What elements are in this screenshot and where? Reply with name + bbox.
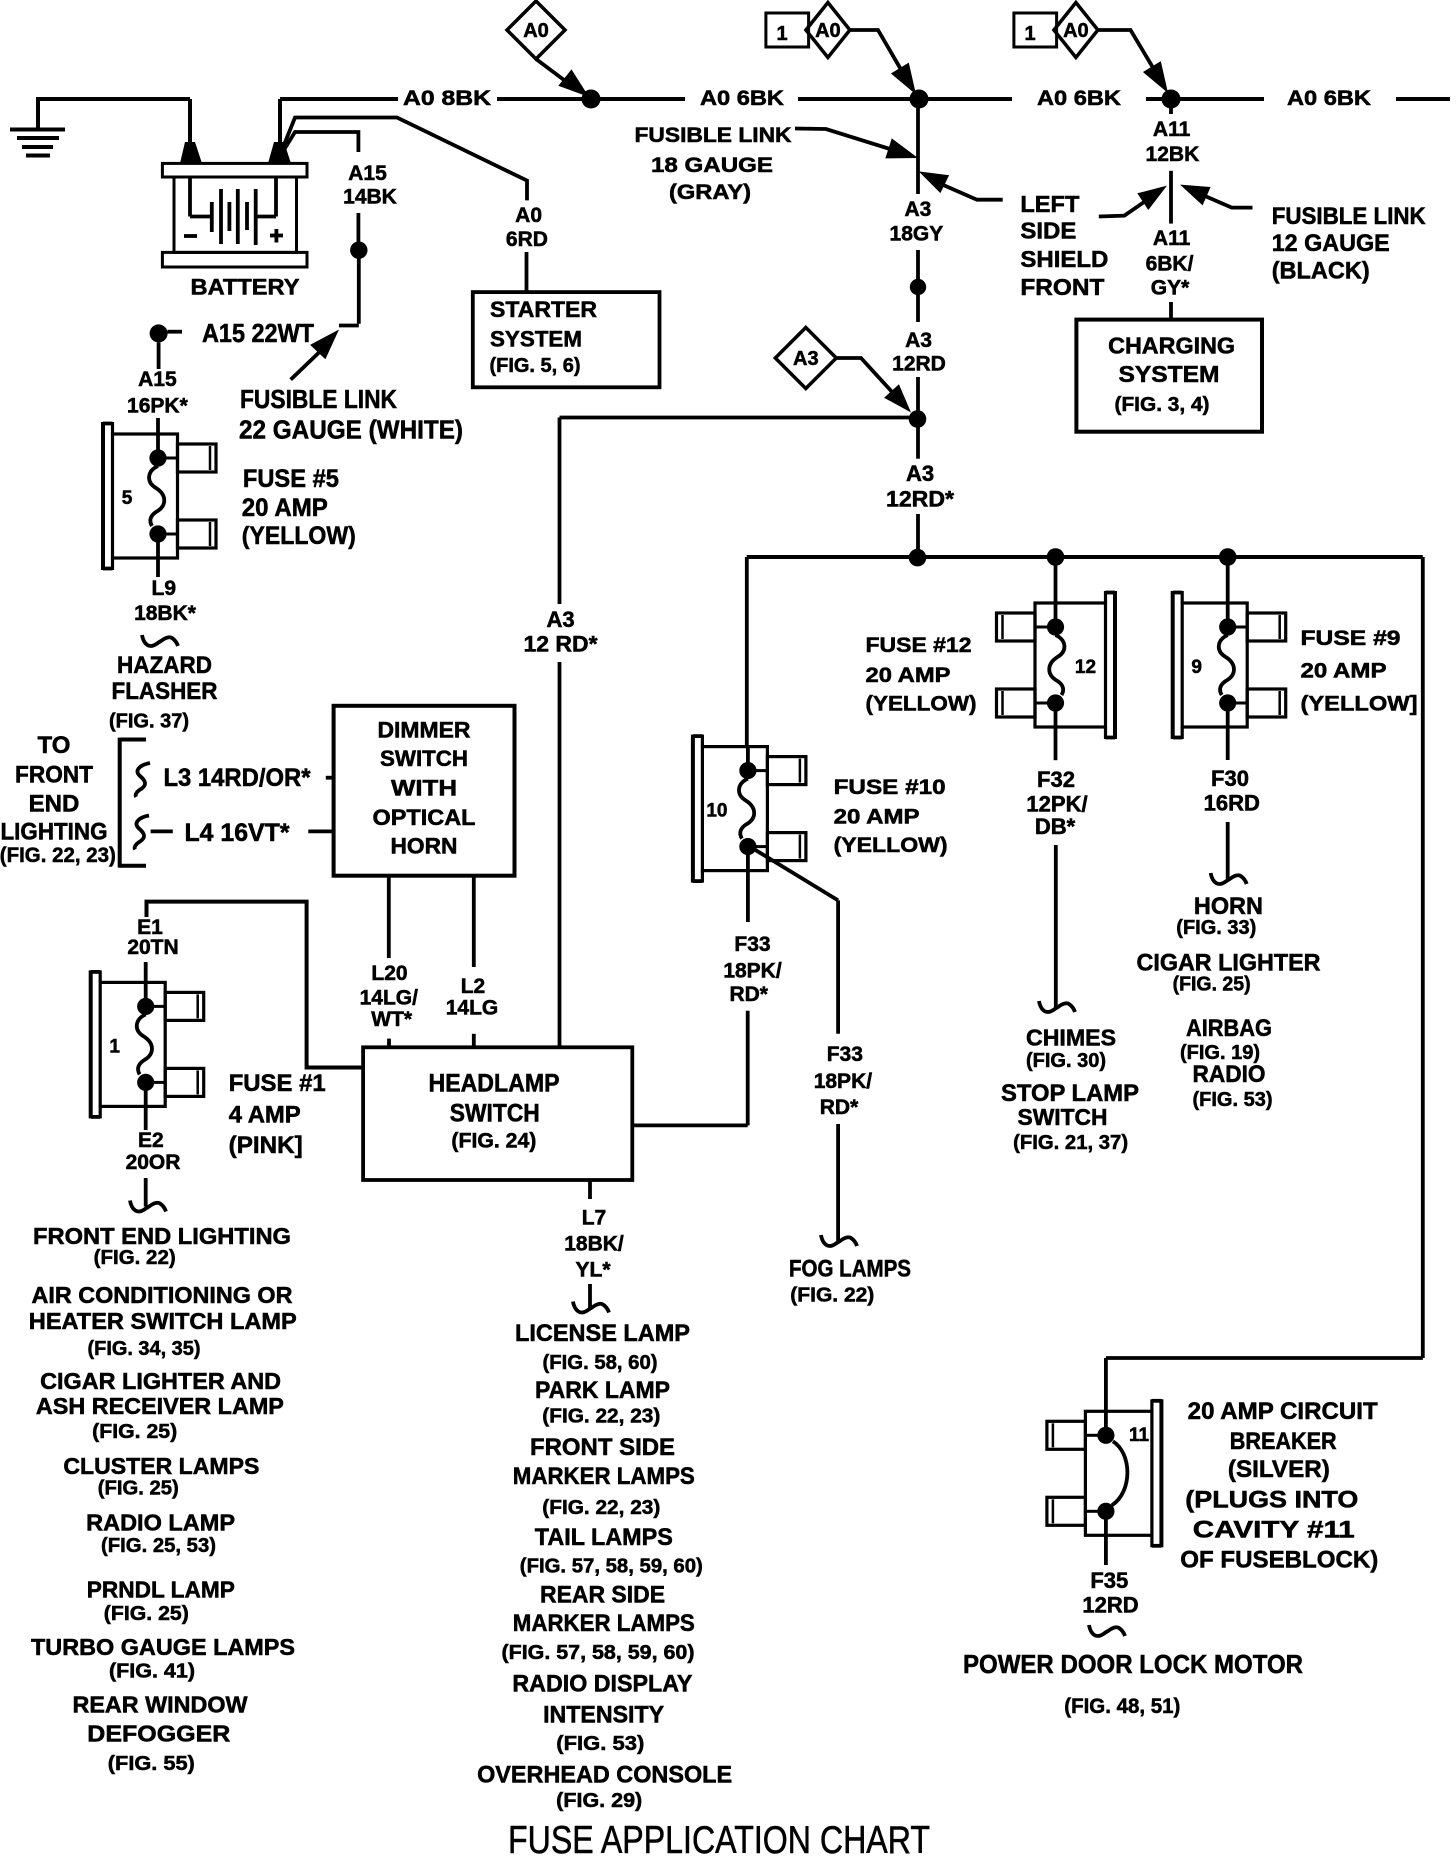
svg-text:REAR WINDOW: REAR WINDOW [73, 1692, 248, 1718]
svg-text:5: 5 [122, 488, 133, 509]
svg-text:16RD: 16RD [1204, 791, 1260, 816]
svg-text:20 AMP: 20 AMP [866, 664, 951, 687]
svg-text:OVERHEAD CONSOLE: OVERHEAD CONSOLE [477, 1762, 732, 1789]
svg-text:DB*: DB* [1035, 814, 1076, 839]
svg-text:FRONT SIDE: FRONT SIDE [530, 1434, 675, 1461]
svg-text:CLUSTER LAMPS: CLUSTER LAMPS [63, 1453, 259, 1479]
svg-text:FUSE #1: FUSE #1 [229, 1070, 326, 1097]
svg-text:1: 1 [109, 1036, 120, 1057]
svg-text:12RD: 12RD [1082, 1593, 1138, 1618]
svg-text:22 GAUGE (WHITE): 22 GAUGE (WHITE) [239, 415, 463, 445]
svg-text:L9: L9 [152, 577, 177, 600]
svg-text:A11: A11 [1153, 118, 1191, 141]
svg-text:12 RD*: 12 RD* [524, 632, 598, 657]
svg-text:(FIG. 22, 23): (FIG. 22, 23) [542, 1406, 660, 1428]
svg-text:18PK/: 18PK/ [723, 960, 782, 983]
svg-text:FUSIBLE LINK: FUSIBLE LINK [240, 384, 397, 414]
svg-text:CAVITY #11: CAVITY #11 [1193, 1517, 1355, 1544]
svg-text:(FIG. 22, 23): (FIG. 22, 23) [542, 1497, 660, 1519]
svg-text:20OR: 20OR [126, 1151, 181, 1174]
svg-text:(FIG. 34, 35): (FIG. 34, 35) [88, 1338, 201, 1360]
svg-text:A3: A3 [793, 348, 819, 370]
svg-text:(FIG. 48, 51): (FIG. 48, 51) [1064, 1695, 1180, 1718]
svg-text:RD*: RD* [729, 983, 768, 1006]
svg-text:FUSE #12: FUSE #12 [866, 634, 972, 657]
svg-text:RADIO LAMP: RADIO LAMP [86, 1510, 235, 1536]
svg-text:A15 22WT: A15 22WT [202, 318, 314, 348]
svg-text:AIRBAG: AIRBAG [1186, 1015, 1272, 1042]
svg-text:(FIG. 29): (FIG. 29) [556, 1790, 642, 1812]
svg-text:REAR SIDE: REAR SIDE [540, 1582, 665, 1609]
svg-text:14LG/: 14LG/ [360, 987, 419, 1010]
svg-text:FUSIBLE LINK: FUSIBLE LINK [1272, 203, 1427, 230]
svg-text:SWITCH: SWITCH [450, 1100, 540, 1128]
svg-text:SHIELD: SHIELD [1020, 246, 1108, 272]
svg-text:(FIG. 25): (FIG. 25) [104, 1603, 189, 1625]
svg-text:BREAKER: BREAKER [1230, 1428, 1337, 1455]
svg-text:MARKER LAMPS: MARKER LAMPS [513, 1463, 695, 1490]
svg-text:FOG LAMPS: FOG LAMPS [789, 1256, 911, 1283]
svg-text:(FIG. 53): (FIG. 53) [1193, 1089, 1273, 1111]
svg-text:(PINK]: (PINK] [229, 1132, 303, 1159]
svg-text:A0 6BK: A0 6BK [1287, 87, 1371, 110]
svg-text:(FIG. 53): (FIG. 53) [556, 1733, 644, 1755]
svg-text:WITH: WITH [391, 776, 457, 801]
svg-text:(FIG. 41): (FIG. 41) [109, 1661, 195, 1683]
svg-text:STOP LAMP: STOP LAMP [1001, 1080, 1139, 1107]
svg-text:PARK LAMP: PARK LAMP [535, 1377, 670, 1404]
svg-text:9: 9 [1191, 657, 1202, 678]
svg-text:RADIO: RADIO [1193, 1061, 1266, 1088]
svg-text:(FIG. 25, 53): (FIG. 25, 53) [101, 1535, 216, 1557]
svg-text:12PK/: 12PK/ [1026, 792, 1087, 817]
svg-text:(FIG. 25): (FIG. 25) [98, 1478, 179, 1500]
svg-text:(FIG. 25): (FIG. 25) [1173, 974, 1251, 996]
svg-text:HORN: HORN [1194, 893, 1263, 920]
svg-text:20 AMP: 20 AMP [1301, 660, 1387, 683]
svg-text:HAZARD: HAZARD [117, 652, 212, 679]
svg-text:HEADLAMP: HEADLAMP [429, 1070, 560, 1098]
svg-text:POWER DOOR LOCK MOTOR: POWER DOOR LOCK MOTOR [963, 1649, 1303, 1679]
svg-text:(FIG. 57, 58, 59, 60): (FIG. 57, 58, 59, 60) [502, 1642, 695, 1664]
svg-text:18BK*: 18BK* [134, 602, 197, 625]
svg-text:A0 6BK: A0 6BK [1037, 87, 1121, 110]
svg-text:L2: L2 [461, 975, 486, 998]
svg-text:A0: A0 [523, 20, 549, 42]
svg-text:(FIG. 55): (FIG. 55) [108, 1753, 195, 1775]
svg-text:FRONT END LIGHTING: FRONT END LIGHTING [33, 1223, 291, 1249]
svg-text:DIMMER: DIMMER [378, 717, 471, 742]
svg-text:(FIG. 37): (FIG. 37) [109, 711, 189, 733]
svg-text:(FIG. 22): (FIG. 22) [94, 1247, 176, 1269]
svg-text:MARKER LAMPS: MARKER LAMPS [513, 1610, 695, 1637]
svg-text:SYSTEM: SYSTEM [1119, 361, 1220, 387]
svg-text:(BLACK): (BLACK) [1272, 258, 1370, 285]
svg-text:CIGAR LIGHTER AND: CIGAR LIGHTER AND [40, 1368, 281, 1394]
svg-text:(FIG. 25): (FIG. 25) [92, 1421, 177, 1443]
svg-text:LEFT: LEFT [1020, 191, 1079, 217]
svg-text:14LG: 14LG [446, 997, 499, 1020]
svg-text:14BK: 14BK [343, 186, 397, 209]
svg-text:(FIG. 22): (FIG. 22) [790, 1285, 874, 1307]
svg-text:A11: A11 [1153, 227, 1191, 250]
svg-text:18BK/: 18BK/ [564, 1233, 624, 1256]
svg-text:DEFOGGER: DEFOGGER [87, 1721, 230, 1747]
svg-text:(FIG. 24): (FIG. 24) [451, 1129, 536, 1152]
svg-text:TAIL LAMPS: TAIL LAMPS [535, 1524, 673, 1551]
svg-text:12 GAUGE: 12 GAUGE [1272, 230, 1390, 257]
svg-text:TURBO GAUGE LAMPS: TURBO GAUGE LAMPS [31, 1634, 295, 1660]
svg-text:RADIO DISPLAY: RADIO DISPLAY [512, 1671, 692, 1698]
svg-text:SWITCH: SWITCH [1018, 1104, 1108, 1130]
svg-text:F32: F32 [1037, 767, 1075, 792]
svg-text:F33: F33 [827, 1043, 863, 1066]
svg-text:16PK*: 16PK* [127, 395, 189, 418]
svg-text:(YELLOW): (YELLOW) [242, 522, 356, 550]
svg-text:(FIG. 5, 6): (FIG. 5, 6) [490, 355, 581, 377]
svg-text:10: 10 [706, 801, 727, 822]
svg-text:FRONT: FRONT [15, 762, 93, 789]
svg-text:STARTER: STARTER [490, 297, 597, 322]
svg-text:FUSE APPLICATION CHART: FUSE APPLICATION CHART [508, 1819, 930, 1858]
svg-text:(GRAY): (GRAY) [669, 181, 751, 204]
svg-text:(SILVER): (SILVER) [1228, 1456, 1330, 1483]
svg-text:6RD: 6RD [506, 228, 548, 251]
svg-text:12RD*: 12RD* [886, 487, 954, 512]
svg-text:F33: F33 [734, 933, 770, 956]
svg-text:(FIG. 21, 37): (FIG. 21, 37) [1013, 1132, 1128, 1154]
svg-text:20 AMP: 20 AMP [834, 806, 920, 829]
svg-text:A0 8BK: A0 8BK [403, 87, 491, 110]
svg-text:FLASHER: FLASHER [112, 678, 218, 705]
svg-text:FUSIBLE LINK: FUSIBLE LINK [635, 124, 792, 147]
svg-text:(PLUGS INTO: (PLUGS INTO [1185, 1487, 1358, 1514]
svg-text:(YELLOW): (YELLOW) [866, 693, 977, 716]
svg-text:YL*: YL* [575, 1259, 611, 1282]
svg-text:OPTICAL: OPTICAL [373, 805, 476, 830]
svg-text:E2: E2 [138, 1129, 164, 1152]
svg-text:18 GAUGE: 18 GAUGE [651, 154, 773, 177]
svg-text:A3: A3 [906, 461, 934, 486]
svg-text:L7: L7 [582, 1207, 607, 1230]
svg-text:SYSTEM: SYSTEM [490, 327, 582, 352]
svg-text:F35: F35 [1090, 1568, 1128, 1593]
svg-text:12: 12 [1075, 657, 1096, 678]
svg-text:L3 14RD/OR*: L3 14RD/OR* [164, 764, 311, 792]
svg-text:18PK/: 18PK/ [814, 1070, 873, 1093]
svg-text:20TN: 20TN [127, 936, 178, 959]
svg-text:AIR CONDITIONING OR: AIR CONDITIONING OR [32, 1282, 293, 1308]
svg-text:A0: A0 [1063, 20, 1089, 42]
svg-text:4 AMP: 4 AMP [229, 1102, 301, 1129]
svg-text:FUSE #10: FUSE #10 [834, 776, 946, 799]
svg-text:(FIG. 3, 4): (FIG. 3, 4) [1115, 394, 1210, 416]
svg-text:(FIG. 58, 60): (FIG. 58, 60) [543, 1352, 658, 1374]
svg-text:LIGHTING: LIGHTING [1, 819, 108, 846]
svg-text:SWITCH: SWITCH [380, 746, 468, 771]
svg-text:A15: A15 [348, 162, 387, 185]
svg-text:FRONT: FRONT [1020, 274, 1104, 300]
svg-text:A0 6BK: A0 6BK [700, 87, 784, 110]
svg-text:20 AMP CIRCUIT: 20 AMP CIRCUIT [1188, 1398, 1378, 1425]
svg-text:(YELLOW]: (YELLOW] [1301, 693, 1418, 716]
svg-text:20 AMP: 20 AMP [242, 494, 328, 522]
svg-text:TO: TO [38, 732, 71, 759]
svg-text:A3: A3 [904, 198, 931, 221]
svg-text:BATTERY: BATTERY [191, 275, 300, 300]
svg-text:FUSE #5: FUSE #5 [243, 465, 339, 493]
svg-text:A3: A3 [546, 607, 574, 632]
svg-text:(FIG. 33): (FIG. 33) [1176, 917, 1256, 939]
svg-text:SIDE: SIDE [1020, 218, 1076, 244]
svg-text:1: 1 [776, 23, 787, 45]
svg-text:(FIG. 57, 58, 59, 60): (FIG. 57, 58, 59, 60) [520, 1556, 703, 1578]
svg-text:(FIG. 30): (FIG. 30) [1026, 1050, 1106, 1072]
svg-text:ASH RECEIVER LAMP: ASH RECEIVER LAMP [36, 1393, 284, 1419]
svg-text:CHARGING: CHARGING [1108, 332, 1235, 358]
svg-text:(YELLOW): (YELLOW) [834, 834, 948, 857]
svg-text:END: END [29, 791, 80, 818]
svg-text:HORN: HORN [391, 834, 458, 859]
svg-text:11: 11 [1129, 1425, 1150, 1446]
svg-text:HEATER SWITCH LAMP: HEATER SWITCH LAMP [29, 1308, 297, 1334]
svg-text:CIGAR LIGHTER: CIGAR LIGHTER [1137, 950, 1321, 977]
svg-text:INTENSITY: INTENSITY [543, 1702, 664, 1729]
svg-text:12RD: 12RD [892, 353, 946, 376]
svg-text:6BK/: 6BK/ [1146, 253, 1194, 276]
svg-text:FUSE #9: FUSE #9 [1301, 627, 1401, 650]
svg-text:(FIG. 22, 23): (FIG. 22, 23) [0, 844, 116, 867]
svg-text:L4 16VT*: L4 16VT* [185, 819, 290, 847]
svg-text:A15: A15 [138, 368, 177, 391]
svg-text:L20: L20 [371, 962, 407, 985]
svg-text:A0: A0 [815, 20, 841, 42]
svg-text:OF FUSEBLOCK): OF FUSEBLOCK) [1180, 1547, 1378, 1574]
svg-text:F30: F30 [1211, 766, 1249, 791]
svg-text:LICENSE LAMP: LICENSE LAMP [515, 1320, 690, 1347]
svg-text:12BK: 12BK [1146, 143, 1200, 166]
svg-text:GY*: GY* [1151, 277, 1190, 300]
svg-text:18GY: 18GY [890, 223, 944, 246]
svg-text:A3: A3 [905, 329, 932, 352]
svg-text:1: 1 [1024, 23, 1035, 45]
svg-text:PRNDL LAMP: PRNDL LAMP [87, 1577, 235, 1603]
svg-text:A0: A0 [515, 204, 542, 227]
svg-text:RD*: RD* [820, 1096, 859, 1119]
svg-text:CHIMES: CHIMES [1026, 1025, 1116, 1051]
svg-text:WT*: WT* [371, 1008, 413, 1031]
